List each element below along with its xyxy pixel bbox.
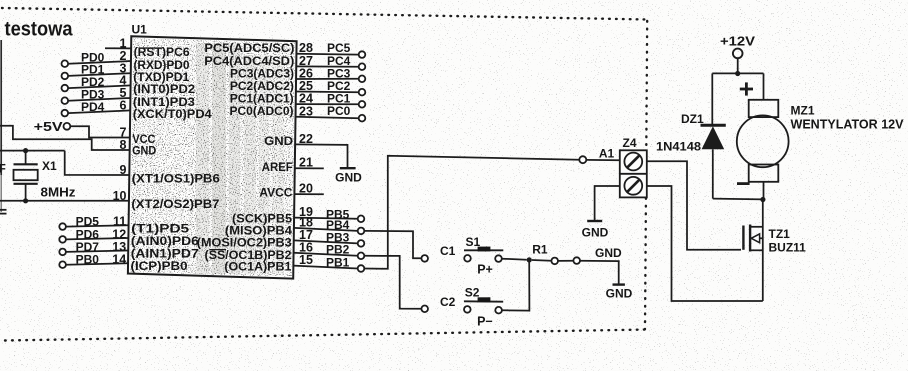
U1 pin 16 (SS/OC1B)PB2 bbox=[294, 253, 358, 256]
svg-text:(XCK/T0)PD4: (XCK/T0)PD4 bbox=[133, 107, 212, 121]
svg-text:23: 23 bbox=[299, 104, 313, 118]
svg-text:MZ1: MZ1 bbox=[791, 103, 815, 117]
svg-text:WENTYLATOR 12V: WENTYLATOR 12V bbox=[791, 117, 905, 131]
svg-text:GND: GND bbox=[264, 134, 293, 148]
svg-text:GND: GND bbox=[335, 171, 362, 185]
wire S1 to R1 bbox=[502, 259, 527, 260]
U1 pin 4 (INT0)PD2 bbox=[62, 85, 69, 92]
svg-text:(OC1A)PB1: (OC1A)PB1 bbox=[224, 259, 291, 273]
svg-text:+5V: +5V bbox=[34, 120, 64, 134]
wire motor bottom bbox=[763, 182, 765, 200]
svg-text:1N4148: 1N4148 bbox=[656, 139, 701, 153]
jumper pin a bbox=[551, 258, 558, 265]
U1 pin20 AVCC stub bbox=[294, 193, 323, 195]
svg-text:X1: X1 bbox=[42, 159, 57, 173]
svg-text:S1: S1 bbox=[466, 235, 481, 249]
svg-text:S2: S2 bbox=[465, 286, 480, 300]
svg-text:(XT1/OS1)PB6: (XT1/OS1)PB6 bbox=[132, 172, 220, 186]
dotted border right bbox=[645, 21, 647, 329]
wire PB4 to C1 bbox=[364, 231, 421, 258]
svg-text:A1: A1 bbox=[599, 147, 615, 161]
svg-text:15: 15 bbox=[299, 253, 313, 267]
U1 pin 24 PC1(ADC1) bbox=[296, 103, 359, 105]
svg-text:(XT2/OS2)PB7: (XT2/OS2)PB7 bbox=[131, 197, 219, 211]
svg-text:8MHz: 8MHz bbox=[41, 186, 76, 200]
svg-text:(ICP)PB0: (ICP)PB0 bbox=[131, 259, 188, 273]
U1 pin 25 PC2(ADC2) bbox=[296, 91, 359, 94]
svg-text:GND: GND bbox=[132, 144, 156, 158]
svg-text:C1: C1 bbox=[440, 244, 456, 258]
IC U1 interior scan texture bbox=[130, 38, 295, 277]
svg-text:TZ1: TZ1 bbox=[769, 227, 791, 241]
wire Z4 bottom to ground bbox=[595, 186, 620, 221]
U1 pin21 AREF stub bbox=[295, 167, 324, 169]
U1 pin 19 (SCK)PB5 bbox=[294, 218, 358, 219]
wire Z4 pin2 to source of TZ1 bbox=[647, 186, 763, 301]
terminal block Z4 bbox=[620, 150, 647, 197]
wire R1 to GND jumper bbox=[532, 259, 552, 262]
Z4 screw 1 bbox=[624, 153, 642, 171]
ground symbol at Z4 bbox=[587, 220, 602, 222]
svg-text:BUZ11: BUZ11 bbox=[769, 240, 807, 254]
U1 pin 3 (TXD)PD1 bbox=[62, 73, 69, 80]
wire bottom rail bbox=[713, 198, 763, 201]
svg-text:PB1: PB1 bbox=[326, 256, 350, 270]
U1 pin 1 (RST)PC6 bbox=[105, 47, 131, 49]
wire Z4 pin1 to gate of TZ1 bbox=[647, 161, 741, 250]
svg-text:PB0: PB0 bbox=[76, 253, 100, 267]
U1 pin 5 (INT1)PD3 bbox=[62, 97, 69, 104]
U1 pin 13 (AIN1)PD7 bbox=[59, 249, 66, 256]
wire jumper to ground bbox=[580, 261, 619, 284]
svg-text:14: 14 bbox=[112, 253, 126, 267]
svg-text:PD4: PD4 bbox=[81, 100, 105, 114]
dotted border bottom bbox=[5, 330, 647, 341]
svg-text:C2: C2 bbox=[440, 295, 456, 309]
svg-text:Z4: Z4 bbox=[623, 136, 637, 150]
wire +12V down bbox=[737, 58, 739, 73]
svg-text:GND: GND bbox=[595, 246, 622, 260]
ground symbol below GND net bbox=[613, 283, 625, 285]
svg-text:F: F bbox=[0, 162, 6, 176]
page left edge line bbox=[0, 40, 2, 175]
svg-text:P−: P− bbox=[477, 314, 493, 328]
IC U1 body bbox=[128, 36, 297, 278]
node R1 bbox=[527, 257, 532, 262]
node crystal bottom junction bbox=[23, 198, 28, 203]
svg-text:GND: GND bbox=[582, 225, 609, 239]
wire A1 to Z4 bbox=[586, 159, 620, 161]
svg-text:R1: R1 bbox=[532, 243, 548, 257]
Z4 screw 2 bbox=[624, 177, 642, 195]
svg-text:6: 6 bbox=[120, 99, 127, 113]
U1 pin22 GND wire bbox=[295, 144, 347, 167]
motor MZ1 fan bbox=[763, 73, 765, 99]
U1 pin 18 (MISO)PB4 bbox=[294, 228, 358, 231]
wire crystal bottom rail to pin 10 XT2 bbox=[0, 200, 129, 202]
terminal A1 bbox=[579, 156, 586, 163]
diode DZ1 1N4148 bbox=[711, 73, 713, 124]
svg-text:AVCC: AVCC bbox=[259, 185, 292, 199]
node drain junction bbox=[760, 197, 765, 202]
U1 pin 28 PC5(ADC5/SC) bbox=[296, 53, 358, 56]
node crystal top junction bbox=[23, 148, 28, 153]
terminal C2 bbox=[421, 306, 428, 313]
U1 pin 6 (XCK/T0)PD4 bbox=[62, 110, 69, 117]
U1 pin 17 (MOSI/OC2)PB3 bbox=[294, 240, 358, 243]
switch S2 bbox=[464, 306, 471, 313]
capacitor plates at left edge (cut off) bbox=[0, 209, 7, 211]
U1 pin 11 (T1)PD5 bbox=[59, 223, 66, 230]
jumper pin b bbox=[573, 257, 580, 264]
motor minus mark bbox=[737, 182, 750, 185]
MOSFET TZ1 BUZ11 bbox=[762, 199, 764, 301]
svg-text:PC0: PC0 bbox=[327, 104, 351, 118]
wire top rail bbox=[712, 72, 763, 74]
U1 pin 14 (ICP)PB0 bbox=[59, 261, 66, 268]
U1 pin 26 PC3(ADC3) bbox=[296, 78, 359, 80]
wire +5V to VCC pin7 bbox=[70, 126, 130, 137]
node top rail junction bbox=[735, 71, 740, 76]
wire riser to pin 9 XT1 bbox=[65, 151, 130, 175]
svg-text:testowa: testowa bbox=[5, 19, 74, 41]
U1 pin 27 PC4(ADC4/SD) bbox=[296, 65, 358, 67]
switch S1 bbox=[464, 255, 471, 262]
U1 pin 2 (RXD)PD0 bbox=[62, 60, 69, 67]
U1 pin 15 (OC1A)PB1 bbox=[293, 266, 357, 269]
crystal X1 bbox=[25, 151, 27, 165]
wire PB2 to C2 bbox=[364, 256, 421, 309]
svg-text:GND: GND bbox=[606, 287, 633, 301]
motor plus mark bbox=[740, 88, 753, 91]
wire crystal top rail bbox=[0, 150, 65, 152]
svg-text:U1: U1 bbox=[132, 23, 148, 37]
wire R1 down to S2 bbox=[502, 260, 529, 311]
svg-text:PC0(ADC0): PC0(ADC0) bbox=[230, 104, 294, 118]
svg-text:+12V: +12V bbox=[720, 34, 756, 48]
svg-text:AREF: AREF bbox=[262, 160, 293, 174]
ground symbol at pin 22 bbox=[340, 167, 356, 169]
U1 pin 12 (AIN0)PD6 bbox=[59, 236, 66, 243]
wire PB1 to A1 bbox=[364, 156, 579, 269]
svg-text:DZ1: DZ1 bbox=[681, 112, 704, 126]
dotted border top bbox=[2, 8, 646, 20]
U1 pin 23 PC0(ADC0) bbox=[296, 117, 359, 118]
wire GND from left edge to pin8 bbox=[0, 126, 130, 150]
terminal C1 bbox=[421, 255, 428, 262]
svg-text:P+: P+ bbox=[477, 262, 493, 276]
